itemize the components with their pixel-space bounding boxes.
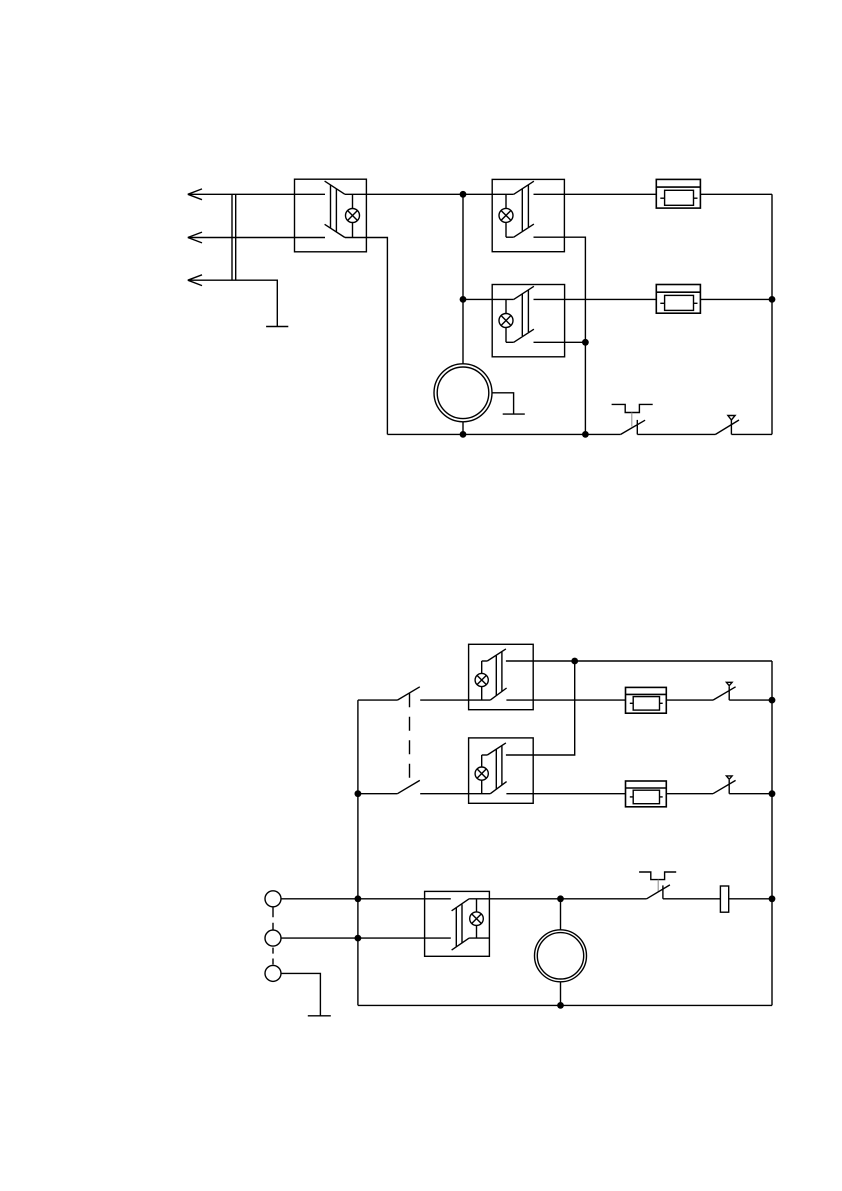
- S5 linkage bars: [496, 745, 502, 789]
- S4 lamp: [475, 661, 488, 700]
- Q1 linkage (dashed): [409, 693, 411, 787]
- S6 contact blade b: [452, 938, 470, 950]
- wire L3 feed (earth): [188, 280, 277, 326]
- S3 entry wire: [463, 298, 514, 300]
- limit switch LS1: [716, 416, 740, 435]
- node H junction dot: [571, 658, 578, 665]
- Q1 pole a output wire: [420, 699, 490, 701]
- S5 contact blade a: [487, 743, 506, 755]
- terminal linkage dashes: [272, 907, 274, 965]
- S4 contact blade a: [487, 649, 506, 661]
- arrow head 3: [188, 275, 202, 286]
- bottom rail (bottom circuit): [358, 1004, 772, 1006]
- S3 contact blade a: [514, 286, 534, 299]
- wire S6 lower output: [469, 937, 489, 939]
- wire S1 bottom output down: [345, 238, 388, 435]
- motor M1: [434, 364, 492, 435]
- ground E2: [308, 1015, 331, 1017]
- S4 linkage bars: [496, 652, 502, 696]
- node E junction dot: [460, 431, 467, 438]
- terminal T3: [265, 965, 281, 981]
- node I junction dot: [769, 697, 776, 704]
- cable marker (double bar): [232, 194, 236, 280]
- node C junction dot: [769, 296, 776, 303]
- illuminated switch S6 enclosure: [425, 891, 490, 956]
- S6 lamp: [470, 899, 484, 938]
- S4 contact blade b: [490, 688, 506, 700]
- wire T2 to S6: [281, 937, 451, 939]
- left rail (bottom circuit): [357, 700, 359, 1005]
- S2 lamp: [499, 194, 514, 237]
- rail segment PB1 to LS1: [637, 433, 715, 435]
- node K junction dot: [355, 895, 362, 902]
- right rail (top circuit): [771, 194, 773, 434]
- wire F2 to right rail: [700, 298, 772, 300]
- wire node H down to S5 top output: [506, 661, 575, 755]
- node A junction dot: [460, 191, 467, 198]
- node J junction dot: [769, 790, 776, 797]
- illuminated switch S5 enclosure: [469, 738, 534, 803]
- node O junction dot: [557, 1002, 564, 1009]
- node M junction dot: [557, 895, 564, 902]
- wire S2 top output to fuse F1: [534, 193, 657, 195]
- illuminated switch S3 enclosure: [492, 285, 564, 357]
- node B junction dot: [460, 296, 467, 303]
- S1 lamp: [346, 194, 360, 237]
- illuminated switch S1 enclosure: [295, 179, 367, 252]
- limit switch LS3: [713, 776, 736, 794]
- wire S2 bottom output down: [534, 237, 586, 434]
- pushbutton PB2 actuator: [639, 872, 676, 892]
- wire S3 top output to fuse F2: [534, 298, 657, 300]
- wire LS3 to right rail: [729, 793, 772, 795]
- motor M1 ground stub: [493, 393, 525, 414]
- S3 lamp: [499, 299, 514, 342]
- vertical bus node A down: [462, 194, 464, 363]
- Q1 blade a: [397, 687, 419, 700]
- arrow head 2: [188, 232, 202, 243]
- wire F3 to limit switch LS2: [666, 699, 713, 701]
- wire S4 bottom output to fuse F3: [506, 699, 625, 701]
- Q1 pole b output wire: [420, 793, 490, 795]
- fuse F4: [626, 781, 667, 807]
- terminal T1: [265, 891, 281, 907]
- wire L2 feed (phase 2): [188, 237, 325, 239]
- S6 contact blade a: [452, 899, 470, 911]
- S1 contact blade a: [325, 181, 345, 194]
- node G junction dot: [355, 790, 362, 797]
- S2 contact blade b: [514, 224, 534, 237]
- limit switch LS2: [713, 682, 736, 700]
- fuse F5 (body): [720, 886, 728, 912]
- node N junction dot: [769, 895, 776, 902]
- wire F1 to right rail: [700, 193, 772, 195]
- S1 contact blade b: [325, 224, 345, 237]
- wire F5 to right rail: [729, 898, 772, 900]
- fuse F1: [656, 179, 700, 208]
- S2 linkage bars: [522, 185, 528, 231]
- bottom rail (top circuit): [387, 433, 620, 435]
- wire PB2 to fuse F5: [663, 898, 721, 900]
- wire S4 top output to right rail: [506, 660, 772, 662]
- S6 linkage bars: [456, 904, 462, 946]
- wire LS2 to right rail: [729, 699, 772, 701]
- S3 contact blade b: [514, 329, 534, 342]
- Q1 pole b wire: [358, 793, 398, 795]
- node L junction dot: [355, 935, 362, 942]
- wire T1 to S6: [281, 898, 451, 900]
- node F junction dot: [582, 431, 589, 438]
- arrow head 1: [188, 189, 202, 200]
- motor M2: [535, 899, 587, 1006]
- S5 contact blade b: [490, 782, 506, 794]
- fuse F2: [656, 285, 700, 314]
- wire T3 to ground E2: [281, 973, 320, 1015]
- pushbutton PB1 actuator: [612, 404, 653, 426]
- wire S6 output to pushbutton PB2: [469, 898, 646, 900]
- S5 lamp: [475, 755, 488, 794]
- rail segment LS1 to right rail: [731, 433, 772, 435]
- switch Q1 pole a wire: [358, 699, 398, 701]
- pushbutton PB2 contact: [647, 885, 670, 899]
- fuse F3: [626, 687, 667, 713]
- wire S5 bottom output to fuse F4: [506, 793, 625, 795]
- wire S3 bottom output to node D: [534, 341, 586, 343]
- right rail (bottom circuit): [771, 661, 773, 1005]
- S1 linkage bars: [331, 185, 337, 232]
- wire L1 feed (phase 1): [188, 193, 325, 195]
- Q1 blade b: [397, 780, 419, 793]
- wire S1 top output to S2: [345, 193, 514, 195]
- S3 linkage bars: [522, 290, 528, 336]
- S2 contact blade a: [514, 181, 534, 194]
- pushbutton PB1 contact: [621, 420, 645, 435]
- terminal T2: [265, 930, 281, 946]
- illuminated switch S4 enclosure: [469, 644, 534, 709]
- ground E1: [266, 326, 288, 328]
- node D junction dot: [582, 339, 589, 346]
- wire F4 to limit switch LS3: [666, 793, 713, 795]
- illuminated switch S2 enclosure: [492, 179, 564, 251]
